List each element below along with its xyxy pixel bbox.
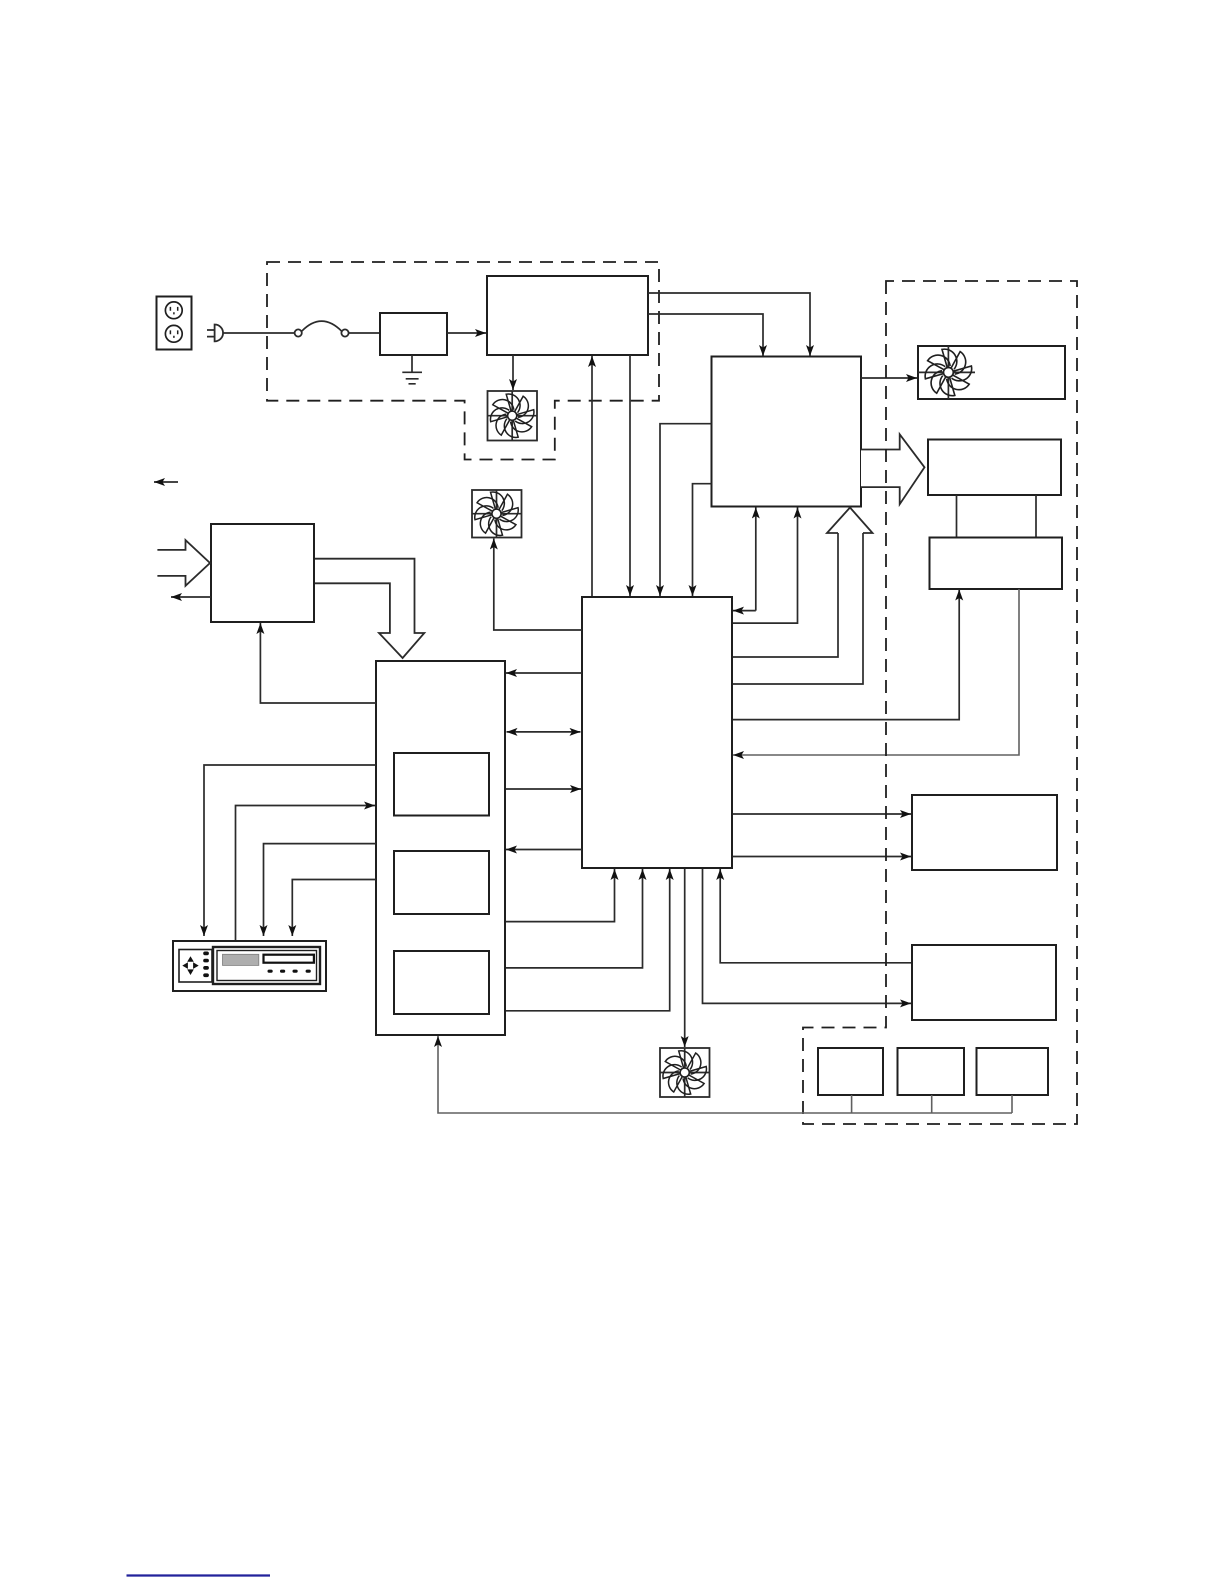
wire: formatter to controller board (top) [506,672,582,674]
wire: controller board to formatter bottom (b) [505,869,643,968]
wire: engine controller to formatter (left upper) [660,424,712,596]
formatter [582,597,732,868]
low-voltage power supply [487,276,648,355]
wire: motors bus to formatter [438,1036,1012,1113]
wire: controller board to control panel (a) [204,765,376,936]
dashed enclosure: power supply unit [267,262,659,460]
wire: formatter to controller board (lower) [506,849,582,851]
wire: formatter to block arrow (left shaft) [732,533,838,657]
wire: controller board to formatter bottom (c) [505,869,670,1011]
engine controller [712,357,862,507]
wire: engine controller to formatter (left lower) [693,484,712,596]
wire: formatter/controller bidirectional bus [507,731,581,733]
dashed enclosure: printer engine right side [803,281,1077,1124]
wire: switch to noise filter [349,332,380,334]
stub: motor M2 [931,1095,933,1113]
wire: controller board to interface box [260,623,376,703]
connectors: laser scanner to scanner driver [957,495,1037,538]
wire: engine controller to formatter (video left) [733,610,756,612]
control panel [173,941,326,991]
high-voltage power supply [912,795,1057,870]
wire: engine controller to high-voltage unit (lower) [732,856,911,858]
motor M3 [977,1048,1049,1095]
stub: motor M1 [851,1095,853,1113]
wire: engine controller to fan FM3 [684,868,686,1047]
wire: controller board to control panel (c) [292,880,376,937]
wire: formatter to engine controller (video up) [755,508,757,611]
laser scanner assembly [928,440,1061,496]
wire: controller board to control panel (b) [264,844,377,936]
wire: engine controller to high-voltage unit (upper) [732,813,911,815]
ground [402,355,422,384]
block arrow: external input to interface [157,540,210,586]
wire: power supply to engine controller (lower) [648,314,763,356]
ac outlet [157,297,192,350]
wire: control panel to controller board [236,806,376,942]
switch SW1 [295,321,349,336]
sensor unit [912,945,1056,1020]
interface box [211,524,314,622]
scanner driver [930,538,1063,590]
ac plug [207,325,223,342]
wire: sensor unit to engine controller [720,869,912,963]
wire: engine controller to sensor unit [703,868,912,1003]
wire: power supply to formatter [629,355,631,596]
wire: power supply to fan FM1 [512,355,514,390]
fan FM3 [660,1048,710,1097]
noise filter [380,313,447,355]
wire: interface output to external [171,596,211,598]
wire: engine controller to scanner driver [732,590,959,720]
stub: motor M3 [1011,1095,1013,1113]
wire: power supply to engine controller (upper) [648,293,810,356]
motor M1 [818,1048,883,1095]
wire: engine controller to fan FM2 [861,377,917,379]
wire: formatter to engine controller (command) [732,508,798,624]
wire: formatter to fan FM4 [494,539,582,631]
motor M2 [898,1048,965,1095]
block arrow: interface to controller board [314,559,424,658]
wire: noise filter to power supply [447,332,486,334]
fan FM1 [488,391,538,441]
fan FM2 exhaust box [918,346,1065,399]
controller board with daughter cards [376,661,505,1035]
wire: controller board to formatter [505,788,581,790]
wire: scanner driver to engine controller [733,589,1019,755]
footer rule [127,1574,271,1576]
block arrow head: into engine controller bottom [827,508,873,534]
block arrow: engine controller to laser scanner [861,434,925,504]
arrow: external output [154,481,178,483]
wire: formatter to block arrow (right shaft) [732,533,863,684]
fan FM4 [472,490,522,538]
wire: formatter to power supply (status) [591,356,593,597]
wire: controller board to formatter bottom (a) [505,869,615,922]
wire: plug cord to switch [223,332,295,334]
